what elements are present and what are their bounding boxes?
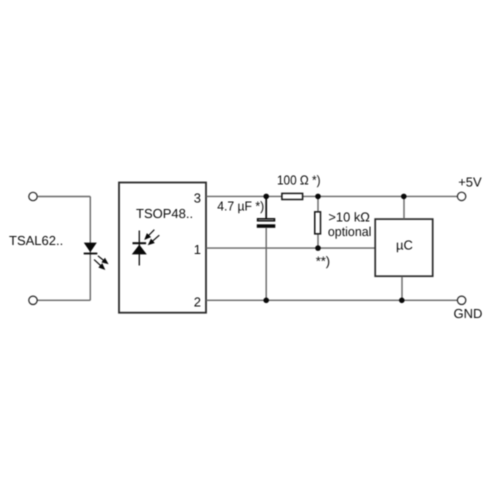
svg-text:optional: optional	[328, 224, 372, 239]
node junction C1/Vs	[263, 194, 269, 200]
svg-text:3: 3	[194, 191, 201, 206]
svg-text:+5V: +5V	[458, 175, 482, 190]
wire LED branch to T2	[37, 299, 90, 301]
terminal T1 (emitter anode, top-left)	[29, 192, 37, 200]
photodiode symbol inside U1	[132, 231, 147, 266]
svg-text:µC: µC	[396, 237, 413, 252]
capacitor C1 4.7uF	[257, 196, 276, 300]
IC U1 TSOP48.. receiver box	[119, 183, 206, 313]
svg-text:100 Ω *): 100 Ω *)	[277, 173, 321, 188]
svg-text:4.7 µF *): 4.7 µF *)	[217, 198, 264, 213]
LED D1 emission arrows	[94, 256, 107, 269]
terminal +5V	[457, 192, 465, 200]
wire GND: pin 2 to GND terminal	[206, 299, 457, 301]
wire OUT: pin 1 to uC	[206, 247, 375, 249]
svg-text:1: 1	[194, 242, 201, 257]
svg-text:**): **)	[316, 253, 330, 268]
svg-text:GND: GND	[454, 306, 483, 321]
wire Vs: pin 3 to +5V	[206, 195, 457, 197]
terminal T2 (emitter cathode, bottom-left)	[29, 296, 37, 304]
wire T1 to LED branch	[37, 196, 90, 198]
svg-text:TSAL62..: TSAL62..	[9, 233, 63, 248]
node junction R2/Vs	[315, 194, 321, 200]
LED D1 (IR emitter diode)	[84, 243, 98, 255]
photodiode incoming light arrows	[145, 230, 159, 245]
resistor R1 100 Ohm	[282, 193, 303, 199]
wire uC Vs lead	[403, 196, 405, 219]
node junction R2/OUT	[315, 245, 321, 251]
svg-text:TSOP48..: TSOP48..	[136, 206, 193, 221]
node junction uC/Vs	[401, 194, 407, 200]
svg-text:>10 kΩ: >10 kΩ	[328, 209, 370, 224]
wire uC GND lead	[401, 277, 403, 301]
resistor R2 >10k pull-up	[315, 196, 321, 248]
node junction C1/GND	[263, 298, 269, 304]
node junction uC/GND	[399, 298, 405, 304]
terminal GND	[457, 296, 465, 304]
IC U2 microcontroller box	[375, 219, 433, 276]
wire LED branch vertical	[89, 197, 91, 301]
svg-text:2: 2	[194, 295, 201, 310]
